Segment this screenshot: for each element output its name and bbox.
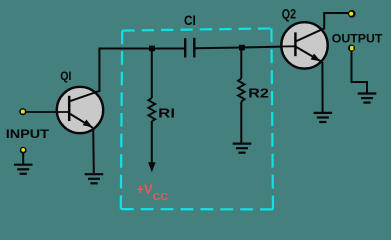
ground below input (14, 165, 33, 174)
ground below Q1 emitter (85, 174, 104, 183)
wire: R2 branch down from junction (240, 48, 242, 79)
resistor R1 zigzag (148, 98, 155, 121)
Vcc supply arrowhead (148, 162, 156, 172)
dashed feedback-network box (cyan) top edge (122, 28, 271, 30)
wire: C1 right plate to Q2 base (196, 46, 297, 48)
svg-text:INPUT: INPUT (6, 127, 50, 141)
svg-text:CI: CI (184, 13, 196, 28)
resistor R2 zigzag (238, 79, 245, 102)
wire: R1 branch down from junction (151, 49, 153, 99)
wire: Q2 emitter down to ground (321, 62, 323, 113)
wire: R2 down to ground (240, 101, 242, 143)
svg-text:RI: RI (158, 105, 175, 120)
output top terminal (348, 10, 356, 18)
ground below output (358, 94, 377, 103)
ground below R2 (233, 144, 252, 153)
dashed box right edge (271, 28, 273, 209)
input ground terminal (20, 147, 27, 154)
wire: Q1 collector riser and top wire to C1 (99, 49, 184, 92)
Q1 base bar (68, 96, 71, 121)
transistor Q1 body (57, 87, 103, 133)
svg-text:+V: +V (137, 182, 153, 197)
svg-text:OUTPUT: OUTPUT (332, 31, 383, 45)
wire: Q1 emitter down to ground (92, 129, 95, 174)
transistor Q2 body (281, 22, 327, 68)
Q2 emitter lead with arrow (296, 47, 322, 62)
wire: input to Q1 base (25, 111, 69, 113)
Q2 collector lead (296, 28, 325, 41)
dashed box left edge (121, 31, 122, 210)
node junction dot at R2 tap (239, 45, 245, 51)
Q1 collector lead (70, 91, 101, 102)
capacitor C1 plates (185, 38, 194, 58)
wire: Q2 collector up and right to output (324, 13, 348, 30)
svg-text:CC: CC (153, 191, 169, 203)
svg-text:R2: R2 (248, 85, 269, 100)
input terminal (19, 108, 26, 115)
wire: R1 down to Vcc arrow (151, 121, 153, 164)
Q1 emitter lead with arrow (70, 114, 93, 128)
Q2 base bar (294, 32, 297, 56)
wire: base lead inside Q2 (281, 45, 296, 47)
wire: input ground stub (22, 153, 24, 164)
svg-text:Q2: Q2 (282, 6, 297, 21)
svg-text:QI: QI (60, 69, 71, 83)
dashed box bottom edge (121, 208, 273, 210)
wire: output ground run (352, 51, 368, 93)
output lower terminal (348, 45, 355, 52)
ground below Q2 emitter (314, 113, 333, 122)
node junction dot at R1 tap (149, 46, 155, 52)
